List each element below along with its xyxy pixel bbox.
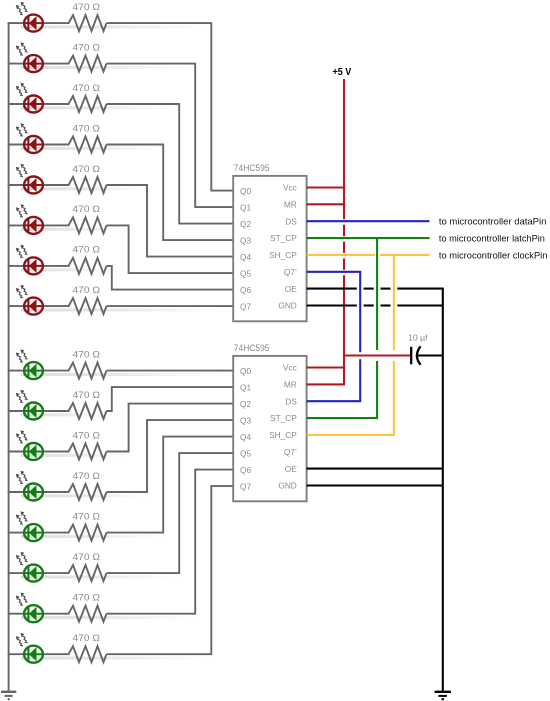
wire shadow row 13 <box>21 535 163 538</box>
wire U2 GND to ground rail <box>307 484 443 486</box>
LED D2 <box>24 55 43 72</box>
wire resistor R10 to shift register pin <box>107 387 235 411</box>
svg-text:Q3: Q3 <box>240 235 251 245</box>
wire bus to LED D6 <box>8 224 26 226</box>
svg-text:74HC595: 74HC595 <box>234 163 270 173</box>
wire clockPin branch to U2 SH_CP (yellow vertical) <box>307 254 395 435</box>
LED D12 <box>24 484 43 501</box>
resistor R13 <box>69 525 107 541</box>
svg-text:to microcontroller clockPin: to microcontroller clockPin <box>439 250 548 261</box>
wire resistor R5 to shift register pin <box>107 185 235 257</box>
svg-text:Vcc: Vcc <box>283 183 297 193</box>
LED D15 <box>24 605 43 622</box>
LED D15 emission arrows <box>16 593 28 606</box>
wire LED D2 to resistor R2 <box>42 63 70 65</box>
LED D4 <box>24 136 43 153</box>
svg-text:Q4: Q4 <box>240 432 251 442</box>
svg-text:470 Ω: 470 Ω <box>73 430 101 440</box>
wire LED D3 to resistor R3 <box>42 103 70 105</box>
svg-text:470 Ω: 470 Ω <box>73 471 101 481</box>
wire U1 GND to ground rail (black, broken at crossings) <box>307 304 443 306</box>
svg-text:470 Ω: 470 Ω <box>73 204 101 214</box>
LED D3 emission arrows <box>16 83 28 96</box>
svg-text:Q7: Q7 <box>240 301 251 311</box>
ground symbol GND (left, LED return) <box>1 692 16 699</box>
wire bus to LED D9 <box>8 370 26 372</box>
LED D11 <box>24 443 43 460</box>
LED D1 emission arrows <box>16 2 28 15</box>
svg-text:to microcontroller latchPin: to microcontroller latchPin <box>439 234 545 245</box>
LED D8 emission arrows <box>16 285 28 298</box>
svg-text:+5 V: +5 V <box>333 67 352 78</box>
LED D7 <box>24 257 43 274</box>
svg-text:470 Ω: 470 Ω <box>73 164 101 174</box>
LED D14 emission arrows <box>16 552 28 565</box>
wire LED D4 to resistor R4 <box>42 144 70 146</box>
svg-text:SH_CP: SH_CP <box>269 430 297 440</box>
svg-text:10 µf: 10 µf <box>408 332 428 342</box>
wire LED D6 to resistor R6 <box>42 224 70 226</box>
resistor R2 <box>69 56 107 72</box>
wire bus to LED D10 <box>8 410 26 412</box>
wire U1 SH_CP to microcontroller clockPin (yellow) <box>307 254 430 256</box>
LED D9 <box>24 362 43 379</box>
wire shadow row 12 <box>21 494 147 497</box>
svg-text:MR: MR <box>284 380 297 390</box>
wire resistor R11 to shift register pin <box>107 404 235 452</box>
svg-text:Q0: Q0 <box>240 186 251 196</box>
wire bus to LED D8 <box>8 305 26 307</box>
wire U2 OE to ground rail <box>307 468 443 470</box>
svg-text:470 Ω: 470 Ω <box>73 245 101 255</box>
svg-text:Q6: Q6 <box>240 465 251 475</box>
wire bus to LED D5 <box>8 184 26 186</box>
wire LED D13 to resistor R13 <box>42 532 70 534</box>
resistor R6 <box>69 217 107 233</box>
wire LED D7 to resistor R7 <box>42 265 70 267</box>
ground symbol GND (right, logic ground) <box>435 692 451 699</box>
LED D10 emission arrows <box>16 390 28 403</box>
resistor R7 <box>69 258 107 274</box>
wire resistor R14 to shift register pin <box>107 453 235 573</box>
wire bus to LED D15 <box>8 613 26 615</box>
wire resistor R13 to shift register pin <box>107 437 235 533</box>
LED D3 <box>24 96 43 113</box>
resistor R10 <box>69 403 107 419</box>
wire U1 Vcc to +5V rail <box>307 186 345 188</box>
wire shadow row 1 <box>21 25 211 28</box>
svg-text:to microcontroller dataPin: to microcontroller dataPin <box>439 217 547 228</box>
LED D7 emission arrows <box>16 245 28 258</box>
wire U1 MR to +5V rail <box>307 203 345 205</box>
svg-text:Q7: Q7 <box>240 481 251 491</box>
wire resistor R4 to shift register pin <box>107 145 235 241</box>
svg-text:Vcc: Vcc <box>283 363 297 373</box>
wire bus to LED D2 <box>8 63 26 65</box>
svg-text:Q7’: Q7’ <box>284 267 297 277</box>
svg-text:470 Ω: 470 Ω <box>73 123 101 133</box>
LED D5 emission arrows <box>16 164 28 177</box>
svg-text:Q7’: Q7’ <box>284 447 297 457</box>
wire shadow row 16 <box>21 657 211 660</box>
svg-text:Q2: Q2 <box>240 219 251 229</box>
wire shadow row 6 <box>21 228 129 231</box>
wire U1 Q7' to U2 DS (blue cascade) <box>307 271 362 401</box>
wire resistor R2 to shift register pin <box>107 64 235 208</box>
svg-text:74HC595: 74HC595 <box>234 343 270 353</box>
LED D12 emission arrows <box>16 471 28 484</box>
resistor R15 <box>69 606 107 622</box>
resistor R4 <box>69 137 107 153</box>
svg-text:MR: MR <box>284 200 297 210</box>
svg-text:ST_CP: ST_CP <box>270 413 297 423</box>
wire U1 ST_CP to microcontroller latchPin (green) <box>307 237 430 239</box>
svg-text:DS: DS <box>285 216 297 226</box>
svg-text:GND: GND <box>278 301 296 311</box>
svg-text:Q3: Q3 <box>240 415 251 425</box>
wire shadow row 11 <box>21 454 129 457</box>
svg-text:Q5: Q5 <box>240 268 251 278</box>
LED D6 emission arrows <box>16 204 28 217</box>
wire bus to LED D7 <box>8 265 26 267</box>
shift register U1 74HC595 body <box>233 176 306 321</box>
LED D5 <box>24 177 43 194</box>
wire LED D5 to resistor R5 <box>42 184 70 186</box>
wire LED D16 to resistor R16 <box>42 653 70 655</box>
LED D14 <box>24 565 43 582</box>
svg-text:470 Ω: 470 Ω <box>73 633 101 643</box>
svg-text:470 Ω: 470 Ω <box>73 390 101 400</box>
svg-text:470 Ω: 470 Ω <box>73 552 101 562</box>
wire shadow row 4 <box>21 147 163 150</box>
LED D11 emission arrows <box>16 430 28 443</box>
svg-text:470 Ω: 470 Ω <box>73 83 101 93</box>
wire resistor R1 to shift register pin <box>107 23 235 191</box>
wire +5V rail (red vertical, broken at crossings) <box>343 79 345 384</box>
resistor R9 <box>69 363 107 379</box>
wire bus to LED D1 <box>8 22 26 24</box>
wire left ground bus (cathode rail) <box>8 22 10 691</box>
LED D4 emission arrows <box>16 123 28 136</box>
svg-text:470 Ω: 470 Ω <box>73 593 101 603</box>
resistor R3 <box>69 96 107 112</box>
svg-text:Q1: Q1 <box>240 382 251 392</box>
capacitor C1 (polarized) <box>411 346 420 365</box>
resistor R11 <box>69 444 107 460</box>
svg-text:470 Ω: 470 Ω <box>73 511 101 521</box>
svg-text:Q4: Q4 <box>240 252 251 262</box>
wire U2 Vcc to +5V rail <box>307 366 345 368</box>
shift register U2 74HC595 body <box>233 356 306 501</box>
wire resistor R3 to shift register pin <box>107 104 235 224</box>
wire shadow row 9 <box>21 373 231 376</box>
wire U1 OE to ground rail (black, broken at crossings) <box>307 288 443 290</box>
wire shadow row 5 <box>21 187 147 190</box>
wire U1 DS to microcontroller dataPin (blue) <box>307 220 430 222</box>
wire bus to LED D12 <box>8 491 26 493</box>
svg-text:OE: OE <box>285 464 297 474</box>
wire LED D8 to resistor R8 <box>42 305 70 307</box>
wire bus to LED D16 <box>8 653 26 655</box>
LED D9 emission arrows <box>16 349 28 362</box>
resistor R1 <box>69 15 107 31</box>
svg-text:Q1: Q1 <box>240 202 251 212</box>
wire bus to LED D14 <box>8 572 26 574</box>
wire LED D12 to resistor R12 <box>42 491 70 493</box>
wire resistor R12 to shift register pin <box>107 420 235 492</box>
svg-text:470 Ω: 470 Ω <box>73 42 101 52</box>
wire LED D15 to resistor R15 <box>42 613 70 615</box>
svg-text:OE: OE <box>285 284 297 294</box>
wire shadow row 3 <box>21 106 179 109</box>
wire LED D14 to resistor R14 <box>42 572 70 574</box>
wire bus to LED D3 <box>8 103 26 105</box>
svg-text:SH_CP: SH_CP <box>269 250 297 260</box>
wire U2 MR to +5V rail <box>307 383 345 385</box>
LED D10 <box>24 403 43 420</box>
wire resistor R6 to shift register pin <box>107 225 235 273</box>
svg-text:GND: GND <box>278 481 296 491</box>
wire shadow row 15 <box>21 616 195 619</box>
wire resistor R16 to shift register pin <box>107 486 235 654</box>
svg-text:470 Ω: 470 Ω <box>73 2 101 12</box>
resistor R12 <box>69 484 107 500</box>
svg-text:DS: DS <box>285 396 297 406</box>
LED D16 emission arrows <box>16 633 28 646</box>
svg-text:Q2: Q2 <box>240 399 251 409</box>
svg-text:470 Ω: 470 Ω <box>73 285 101 295</box>
wire bus to LED D4 <box>8 144 26 146</box>
svg-text:ST_CP: ST_CP <box>270 233 297 243</box>
LED D13 emission arrows <box>16 511 28 524</box>
resistor R14 <box>69 565 107 581</box>
wire LED D10 to resistor R10 <box>42 410 70 412</box>
svg-text:Q6: Q6 <box>240 285 251 295</box>
LED D2 emission arrows <box>16 42 28 55</box>
svg-text:Q5: Q5 <box>240 448 251 458</box>
LED D6 <box>24 217 43 234</box>
LED D8 <box>24 298 43 315</box>
wire capacitor C1 to ground rail <box>417 354 443 356</box>
wire shadow row 10 <box>21 413 112 416</box>
wire LED D11 to resistor R11 <box>42 451 70 453</box>
resistor R16 <box>69 646 107 662</box>
svg-text:470 Ω: 470 Ω <box>73 349 101 359</box>
wire +5V rail to capacitor C1 <box>343 354 411 356</box>
LED D13 <box>24 524 43 541</box>
wire shadow row 14 <box>21 575 179 578</box>
wire LED D1 to resistor R1 <box>42 22 70 24</box>
wire resistor R7 to shift register pin <box>107 266 235 290</box>
wire bus to LED D11 <box>8 451 26 453</box>
wire bus to LED D13 <box>8 532 26 534</box>
wire shadow row 8 <box>21 308 231 311</box>
wire shadow row 7 <box>21 268 112 271</box>
wire latchPin branch to U2 ST_CP (green vertical) <box>307 237 379 418</box>
resistor R5 <box>69 177 107 193</box>
wire shadow row 2 <box>21 66 195 69</box>
resistor R8 <box>69 298 107 314</box>
LED D16 <box>24 646 43 663</box>
wire resistor R9 to shift register pin <box>107 370 235 372</box>
wire LED D9 to resistor R9 <box>42 370 70 372</box>
svg-text:Q0: Q0 <box>240 366 251 376</box>
LED D1 <box>24 15 43 32</box>
wire resistor R8 to shift register pin <box>107 305 235 307</box>
wire ground rail vertical <box>442 288 444 691</box>
wire resistor R15 to shift register pin <box>107 470 235 614</box>
